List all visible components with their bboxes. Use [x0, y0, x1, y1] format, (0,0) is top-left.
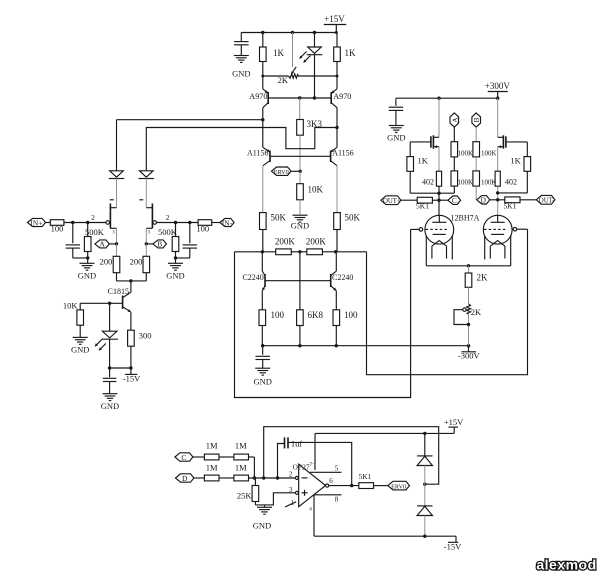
svg-text:C: C — [452, 196, 457, 205]
pin 4 supply drop — [313, 495, 315, 536]
transistor JFET2 2SK170 (right) — [153, 221, 157, 225]
wire cathode rail — [426, 265, 510, 267]
svg-text:200: 200 — [100, 257, 113, 267]
svg-text:ERV0: ERV0 — [391, 483, 406, 490]
pin 1 stub — [285, 502, 296, 507]
svg-text:8: 8 — [335, 496, 339, 504]
svg-text:5K1: 5K1 — [358, 472, 371, 481]
power net +15V label — [324, 24, 347, 26]
svg-text:1uf: 1uf — [291, 439, 303, 449]
transistor Q2 A970 (right) — [330, 92, 332, 104]
svg-text:D: D — [481, 196, 487, 205]
wire A970 emitter rail y76 — [263, 75, 289, 77]
resistor 1K (left of LED) — [262, 33, 264, 48]
svg-text:1K: 1K — [273, 48, 285, 58]
svg-text:2: 2 — [166, 213, 170, 222]
node B tag (to divider) — [472, 113, 481, 127]
svg-text:100: 100 — [51, 224, 64, 234]
svg-text:GND: GND — [253, 521, 271, 531]
LED D1 top — [314, 33, 316, 48]
svg-text:2K: 2K — [477, 273, 489, 283]
transistor Q5 C2240 (left) — [264, 274, 266, 287]
svg-text:alexmod: alexmod — [536, 557, 596, 573]
svg-text:A970: A970 — [333, 92, 351, 101]
wire top +15V rail — [241, 32, 336, 34]
transistor JFET1 2SK170 (left) — [106, 221, 110, 225]
node ERV0 tag (servo input) — [272, 167, 292, 175]
svg-text:402: 402 — [422, 177, 434, 186]
svg-text:25K: 25K — [237, 491, 253, 501]
resistor 1M (C first) — [204, 454, 219, 460]
svg-text:100K: 100K — [481, 149, 497, 157]
svg-text:12BH7A: 12BH7A — [451, 214, 480, 223]
svg-text:50K: 50K — [345, 213, 361, 223]
resistor 100 (IN-) — [198, 220, 212, 226]
port IN- tag — [220, 218, 234, 226]
node D tag (plate out) — [477, 196, 490, 204]
power net -300V — [468, 346, 470, 352]
transistor Q6 C2240 (right) — [330, 274, 332, 287]
wire M1 gate — [410, 141, 431, 143]
svg-text:C2240: C2240 — [242, 273, 263, 282]
svg-text:300: 300 — [139, 331, 152, 341]
junction dots IN+ node — [71, 221, 74, 224]
node ERV0 tag (servo output) — [388, 481, 410, 490]
svg-text:50K: 50K — [271, 213, 287, 223]
svg-text:100K: 100K — [458, 149, 474, 157]
node feedback wire (left) to JFET1 drain — [261, 118, 264, 121]
resistor 402 (left) — [438, 147, 440, 172]
node A tag (JFET1 source) — [95, 240, 109, 248]
port IN+ tag — [28, 218, 46, 226]
node D tag (servo input) — [176, 474, 194, 482]
wire C row joins D row — [253, 457, 255, 478]
potentiometer 2K (tail trim) — [467, 304, 471, 314]
svg-text:B: B — [472, 117, 481, 122]
wire right bias row — [498, 192, 528, 194]
ground GND under 10K bias — [73, 336, 88, 338]
svg-text:100K: 100K — [481, 179, 497, 187]
resistor 1K (M2 gate) — [524, 157, 531, 172]
svg-text:A1156: A1156 — [332, 149, 353, 158]
svg-text:-300V: -300V — [458, 350, 481, 360]
svg-text:6: 6 — [329, 477, 333, 485]
resistor 1K (right of LED) — [336, 33, 338, 48]
resistor 6K8 — [299, 252, 301, 310]
svg-text:5K1: 5K1 — [504, 202, 517, 211]
op-amp U1 OP27 body — [299, 464, 326, 507]
ground GND under +300V cap — [389, 125, 404, 127]
node B tag (JFET2 source) — [153, 240, 167, 248]
node C tag (plate out) — [448, 196, 461, 204]
svg-text:GND: GND — [291, 221, 309, 231]
svg-text:IN-: IN- — [222, 218, 233, 227]
wire left C2240 node to V1 grid (feedback box) — [235, 229, 411, 397]
wire +300V rail — [396, 97, 498, 99]
svg-text:1M: 1M — [206, 441, 218, 451]
svg-text:+15V: +15V — [324, 14, 345, 24]
resistor 300 (emitter) — [128, 330, 135, 346]
svg-text:100K: 100K — [458, 179, 474, 187]
resistor 10K (servo injection) — [299, 171, 301, 183]
svg-text:1M: 1M — [235, 441, 247, 451]
svg-text:1: 1 — [291, 499, 295, 507]
svg-text:D: D — [182, 474, 188, 483]
svg-text:500K: 500K — [158, 227, 178, 237]
port OUT- tag — [536, 195, 555, 204]
svg-text:100: 100 — [196, 224, 209, 234]
svg-text:GND: GND — [71, 345, 89, 355]
resistor 3K3 — [299, 98, 301, 120]
op-amp output pin 6 — [326, 484, 329, 487]
ground GND under 500K right — [168, 262, 183, 264]
ground GND under 10K — [293, 214, 308, 216]
tube V1 12BH7A (left triode) — [425, 215, 454, 244]
tube V1 grid lead — [411, 228, 420, 230]
resistor 1K (M1 gate) — [407, 157, 414, 172]
svg-text:2K: 2K — [278, 75, 289, 85]
svg-text:A1156: A1156 — [247, 149, 268, 158]
svg-text:GND: GND — [232, 69, 250, 79]
svg-text:C2240: C2240 — [332, 273, 353, 282]
svg-text:A: A — [99, 240, 105, 249]
resistor 1M (C second) — [234, 454, 249, 460]
diode D3 (JFET2 cascode) — [140, 171, 154, 177]
resistor 5K1 (left grid stopper) — [417, 197, 432, 203]
transistor Q3 A1156 (left) — [269, 151, 271, 163]
wire M2 gate — [506, 141, 527, 143]
wire C1815 base — [80, 302, 122, 304]
wire left bias row — [410, 192, 454, 194]
resistor 200 (left source) — [116, 244, 118, 256]
svg-text:500K: 500K — [85, 227, 105, 237]
capacitor 1uf servo feedback — [278, 444, 285, 479]
svg-text:200K: 200K — [275, 237, 296, 247]
capacitor IN- filter — [189, 223, 191, 244]
resistor 200K (right) — [307, 249, 323, 255]
svg-text:100: 100 — [271, 310, 285, 320]
wire -15V node — [110, 367, 131, 369]
capacitor C-top-left — [240, 33, 242, 42]
svg-text:2K: 2K — [471, 307, 482, 317]
LED D4 emission arrows — [95, 340, 102, 347]
svg-text:+300V: +300V — [485, 81, 511, 91]
diode D5 (clamp to +15V) — [424, 433, 426, 456]
resistor 500K (left) — [87, 223, 89, 237]
svg-text:200K: 200K — [306, 237, 327, 247]
resistor 5K1 (servo out) — [359, 483, 374, 489]
wire 200K row — [235, 251, 276, 253]
power net +15V (servo) — [453, 427, 455, 433]
ground GND under 500K left — [80, 262, 95, 264]
svg-text:1M: 1M — [235, 463, 247, 473]
resistor 200K (left) — [276, 249, 292, 255]
pin 5 stub — [310, 471, 342, 473]
ground GND servo — [264, 505, 266, 507]
svg-text:1K: 1K — [345, 48, 357, 58]
transistor M1 MOSFET (left) — [438, 98, 440, 137]
pin 7 supply riser — [314, 433, 316, 470]
resistor 1M (D second) — [234, 475, 249, 481]
diode D2 (JFET1 cascode) — [110, 171, 124, 177]
wire A1156 base rail — [270, 155, 331, 157]
svg-text:IN+: IN+ — [30, 218, 42, 227]
port OUT+ tag — [381, 196, 401, 205]
tube V2 grid lead — [517, 228, 528, 230]
junction dots on +15V rail — [261, 31, 264, 34]
svg-text:-15V: -15V — [444, 542, 462, 552]
resistor 1M (D first) — [204, 475, 219, 481]
svg-text:A970: A970 — [249, 92, 267, 101]
LED D1 emission arrows — [300, 52, 307, 59]
ground GND under top-left cap — [234, 55, 249, 57]
node C tag (servo input) — [175, 453, 193, 461]
node A tag (to divider) — [450, 113, 459, 127]
resistor 200 (right source) — [145, 244, 147, 256]
op-amp input pins — [295, 476, 298, 479]
resistor 10K (base bias) — [79, 303, 81, 310]
svg-text:C: C — [181, 453, 186, 462]
potentiometer 2K (bias) — [289, 74, 298, 78]
svg-text:10K: 10K — [63, 300, 79, 310]
node feedback wire (right) to JFET2 drain — [335, 126, 338, 129]
resistor 2K (tail) — [468, 266, 470, 273]
svg-text:-15V: -15V — [123, 374, 141, 384]
svg-text:+15V: +15V — [444, 417, 464, 427]
capacitor +300V bypass — [395, 98, 397, 106]
wire common source node — [117, 280, 147, 282]
svg-text:ERV0: ERV0 — [274, 169, 289, 176]
svg-text:200: 200 — [130, 257, 143, 267]
capacitor IN+ filter — [72, 223, 74, 244]
svg-text:OUT-: OUT- — [539, 198, 555, 205]
LED D4 (bias reference) — [109, 303, 111, 331]
resistor 100 (IN+) — [50, 220, 64, 226]
pot 2K wiper — [292, 33, 294, 68]
transistor Q7 C1815 — [122, 296, 124, 309]
resistor 50K (left) — [260, 213, 267, 230]
svg-text:-: - — [313, 461, 315, 467]
power net +300V label — [488, 91, 508, 93]
tube V2 12BH7A (right triode) — [483, 215, 512, 244]
svg-text:GND: GND — [78, 271, 96, 281]
resistor 100K (A upper) — [451, 142, 458, 157]
wire -15V rail (servo) — [314, 535, 456, 537]
svg-text:5: 5 — [335, 464, 339, 472]
svg-text:2: 2 — [289, 470, 293, 478]
resistor 100K (B upper) — [473, 142, 480, 157]
wire +15V rail (servo) — [315, 432, 454, 434]
svg-text:A: A — [450, 117, 459, 123]
capacitor bypass on -300V rail — [262, 346, 264, 355]
wire A970 base rail — [268, 97, 331, 99]
svg-text:GND: GND — [387, 133, 405, 143]
resistor 50K (right) — [334, 213, 341, 230]
wire input clamp loop — [264, 427, 439, 485]
svg-text:100: 100 — [344, 310, 358, 320]
svg-text:OUT+: OUT+ — [383, 198, 401, 205]
svg-text:2: 2 — [91, 213, 95, 222]
svg-text:10K: 10K — [308, 185, 324, 195]
svg-text:GND: GND — [253, 377, 271, 387]
svg-text:GND: GND — [166, 271, 184, 281]
svg-text:1K: 1K — [418, 155, 429, 165]
wire right C2240 node to V2 grid — [367, 229, 528, 375]
transistor Q4 A1156 (right) — [330, 151, 332, 163]
resistor 25K (servo ground ref) — [254, 478, 256, 486]
resistor 100 (right emitter) — [333, 310, 340, 326]
resistor 5K1 (right grid stopper) — [505, 197, 520, 203]
diode D6 (clamp to -15V) — [424, 484, 426, 506]
svg-text:1M: 1M — [206, 463, 218, 473]
svg-text:OP27: OP27 — [293, 462, 310, 471]
svg-text:3: 3 — [289, 486, 293, 494]
ground GND under bypass cap — [255, 367, 270, 369]
wire C2240 base rail — [265, 280, 331, 282]
resistor 500K (right) — [175, 223, 177, 237]
resistor 100K (A lower) — [451, 171, 458, 186]
transistor Q1 A970 (left) — [267, 92, 269, 104]
svg-text:6K8: 6K8 — [308, 310, 324, 320]
capacitor -15V bypass — [109, 368, 111, 377]
ground GND under -15V cap — [103, 393, 118, 395]
svg-text:5K1: 5K1 — [416, 202, 429, 211]
svg-text:4: 4 — [309, 507, 312, 513]
power net -15V (C1815) — [130, 368, 132, 374]
pin 8 stub — [314, 494, 342, 496]
svg-text:B: B — [157, 240, 162, 249]
wire -300V rail — [263, 345, 469, 347]
svg-text:GND: GND — [101, 401, 119, 411]
power net -15V (servo) — [455, 536, 457, 542]
transistor M2 MOSFET (right) — [497, 98, 499, 137]
wire JFET2 gate — [157, 222, 176, 224]
svg-text:402: 402 — [505, 177, 517, 186]
resistor 100 (left emitter) — [259, 310, 266, 326]
svg-text:C1815: C1815 — [108, 287, 129, 296]
resistor 100K (B lower) — [473, 171, 480, 186]
wire JFET1 gate — [88, 222, 106, 224]
svg-text:1K: 1K — [510, 155, 521, 165]
junction dots IN- node — [174, 221, 177, 224]
wire op-amp + input reference — [255, 493, 295, 505]
resistor 402 (right) — [497, 147, 499, 172]
